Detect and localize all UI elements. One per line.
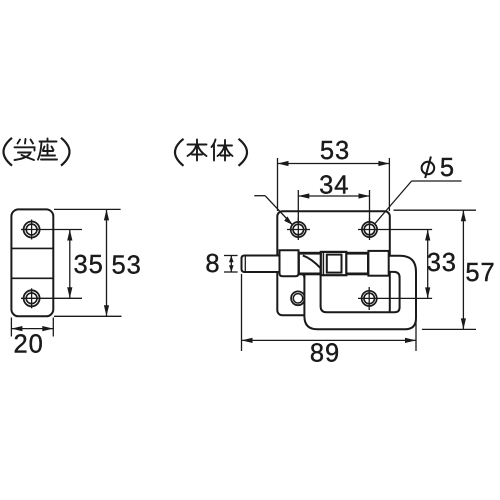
svg-text:89: 89 <box>310 339 340 367</box>
svg-text:20: 20 <box>14 331 44 359</box>
svg-text:53: 53 <box>320 137 350 165</box>
svg-text:33: 33 <box>427 249 457 277</box>
svg-text:35: 35 <box>74 251 104 279</box>
svg-text:5: 5 <box>440 154 454 182</box>
svg-text:34: 34 <box>319 172 349 200</box>
svg-text:53: 53 <box>112 251 142 279</box>
svg-text:57: 57 <box>465 259 495 287</box>
svg-text:8: 8 <box>205 250 219 278</box>
